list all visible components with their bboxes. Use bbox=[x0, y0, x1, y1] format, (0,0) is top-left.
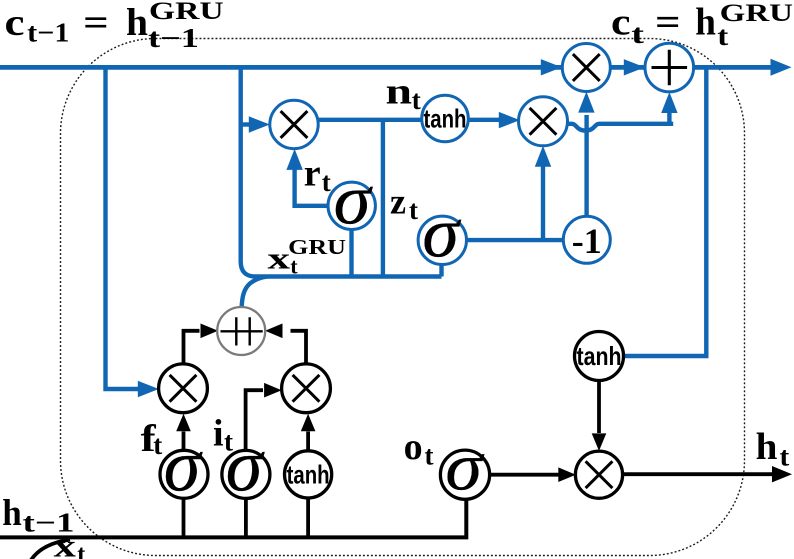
wire: r_t from sigma_r up into reset multiply bbox=[286, 149, 329, 206]
svg-text:GRU: GRU bbox=[720, 0, 793, 27]
wire: z_t sigma to -1 node bbox=[465, 238, 564, 242]
svg-text:=: = bbox=[655, 1, 681, 43]
minus one node bbox=[563, 216, 610, 263]
wire: -1 up to cell multiply bbox=[578, 92, 594, 217]
wire: z_t branch up into z multiply bbox=[535, 146, 551, 240]
sigma node z gate bbox=[418, 193, 466, 272]
wire: tanh to z multiply with arrow bbox=[466, 112, 520, 128]
wire: reset product to tanh candidate bbox=[316, 118, 423, 122]
label x_t^{GRU} bbox=[268, 235, 346, 279]
wire: sigma_r bottom stub bbox=[349, 229, 353, 277]
label z_t bbox=[390, 181, 418, 225]
wire: stem below tanh_g bbox=[306, 498, 310, 536]
svg-text:t−1: t−1 bbox=[148, 23, 199, 53]
wire: sigma_f to forget multiply bbox=[176, 414, 191, 451]
label c_{t-1} = h_{t-1}^{GRU} bbox=[5, 0, 224, 53]
svg-text:σ: σ bbox=[445, 430, 485, 505]
wire: forget multiply up to concat bbox=[184, 324, 219, 365]
svg-text:-1: -1 bbox=[572, 221, 602, 261]
wire: branch from candidate wire down to x bus bbox=[381, 120, 385, 277]
wire: input multiply up to concat bbox=[265, 324, 306, 365]
svg-text:x: x bbox=[54, 528, 76, 559]
svg-text:tanh: tanh bbox=[424, 104, 467, 134]
label h_{t-1} bbox=[2, 493, 74, 538]
wire: z multiply to add node with hop over -1 line bbox=[566, 124, 673, 131]
tanh node output bbox=[575, 332, 624, 381]
wire: cell state line c_{t-1} to c_t (top horizontal) bbox=[0, 59, 792, 76]
svg-text:t: t bbox=[631, 19, 644, 49]
wire: stem below sigma_f bbox=[182, 498, 186, 536]
add node on cell line bbox=[645, 43, 694, 92]
svg-text:t: t bbox=[224, 427, 233, 457]
concat node bbox=[217, 307, 265, 355]
svg-text:o: o bbox=[404, 426, 423, 468]
svg-text:=: = bbox=[83, 2, 109, 44]
svg-text:h: h bbox=[2, 493, 22, 534]
multiply node reset gate (r*h) bbox=[270, 100, 318, 148]
sigma node r gate bbox=[328, 160, 375, 239]
svg-text:t: t bbox=[153, 430, 162, 460]
sigma node o gate bbox=[440, 430, 489, 505]
svg-text:h: h bbox=[695, 0, 716, 43]
multiply node output bbox=[575, 451, 622, 498]
svg-text:GRU: GRU bbox=[288, 235, 346, 259]
sigma node f gate bbox=[160, 426, 208, 508]
wire: output h_t arrow bbox=[622, 466, 792, 482]
label h_t bbox=[756, 426, 790, 472]
svg-text:σ: σ bbox=[422, 193, 462, 272]
svg-text:t: t bbox=[322, 167, 331, 197]
label o_t bbox=[404, 426, 434, 470]
label n_t bbox=[386, 71, 421, 114]
label i_t bbox=[213, 413, 233, 457]
multiply node on cell line bbox=[562, 44, 610, 92]
wire: sigma_z bottom stub bbox=[439, 264, 443, 277]
multiply node input gate bbox=[282, 364, 331, 413]
svg-text:n: n bbox=[386, 71, 413, 112]
svg-text:t: t bbox=[412, 85, 421, 115]
wire: c_{t-1} branch down to forget-gate multiply bbox=[106, 67, 159, 397]
svg-text:z: z bbox=[390, 181, 406, 221]
svg-text:h: h bbox=[126, 1, 148, 44]
svg-text:r: r bbox=[304, 153, 321, 195]
svg-text:t: t bbox=[780, 441, 790, 471]
svg-text:t−1: t−1 bbox=[27, 18, 69, 48]
cell boundary dashed rounded rectangle bbox=[61, 39, 745, 556]
svg-text:c: c bbox=[611, 1, 631, 43]
wire: x_t merging arc bbox=[31, 540, 70, 559]
svg-text:σ: σ bbox=[164, 426, 203, 508]
label f_t bbox=[141, 418, 163, 460]
label x_t bbox=[54, 528, 86, 559]
tanh candidate node n_t bbox=[422, 95, 469, 142]
label r_t bbox=[304, 153, 331, 197]
svg-text:h: h bbox=[756, 426, 778, 468]
svg-text:c: c bbox=[5, 2, 25, 44]
wire: stem below sigma_i bbox=[244, 498, 248, 536]
multiply node forget gate bbox=[159, 364, 208, 413]
svg-text:t: t bbox=[409, 195, 418, 225]
wire: h_{t-1}/x_t input line at bottom bbox=[0, 500, 466, 538]
wire: h branch down (x=241) with rounded corner into x_t^GRU bus bbox=[241, 67, 442, 277]
wire: x_t^GRU S-curve from concat node bbox=[242, 277, 267, 309]
label c_t = h_t^{GRU} bbox=[611, 0, 793, 51]
wire: sigma_o to output multiply bbox=[489, 467, 575, 482]
sigma node i gate bbox=[222, 426, 270, 508]
multiply node z*tanh bbox=[519, 97, 568, 146]
wire: arrow into reset multiply bbox=[241, 116, 270, 132]
svg-text:GRU: GRU bbox=[149, 0, 224, 25]
wire: vertical arrow into add node bottom bbox=[661, 92, 677, 124]
wire: tanh_g to input multiply bbox=[301, 414, 316, 451]
wire: tanh output down into output multiply bbox=[592, 380, 607, 451]
svg-text:t: t bbox=[77, 542, 85, 559]
svg-text:σ: σ bbox=[334, 160, 374, 239]
svg-text:i: i bbox=[213, 413, 224, 455]
svg-text:tanh: tanh bbox=[287, 459, 330, 489]
svg-text:t: t bbox=[425, 440, 434, 470]
tanh node g gate bbox=[285, 451, 332, 498]
wire: sigma_i up and right into input multiply bbox=[246, 383, 282, 451]
wire: cell state branch down to tanh output bbox=[625, 67, 707, 356]
svg-text:tanh: tanh bbox=[577, 341, 622, 371]
